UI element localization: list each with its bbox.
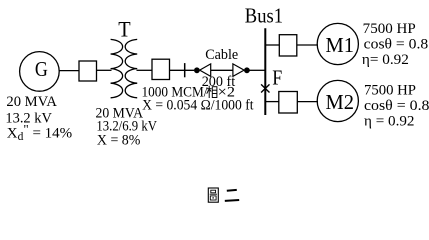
wire breaker 2 to cable [170, 69, 195, 71]
breaker box 2 [152, 59, 170, 79]
svg-text:13.2 kV: 13.2 kV [5, 111, 52, 127]
svg-text:G: G [35, 57, 48, 81]
cable conductor wire [211, 69, 233, 71]
cable left terminal triangle [200, 64, 211, 77]
bus Bus1 [264, 28, 266, 115]
svg-text:T: T [118, 18, 130, 42]
svg-text:Bus1: Bus1 [245, 4, 283, 27]
transformer right winding [125, 39, 137, 97]
transformer left winding [111, 39, 123, 97]
breaker box 1 [79, 61, 97, 81]
wire bus to breaker 4 [265, 101, 279, 103]
wire cable to bus [250, 69, 266, 71]
cable right terminal dot [244, 67, 250, 73]
svg-text:F: F [272, 65, 282, 89]
svg-text:Cable: Cable [205, 47, 238, 63]
wire breaker 3 to motor M1 [297, 44, 318, 46]
wire transformer to breaker 2 [137, 69, 153, 71]
svg-text:7500 HP: 7500 HP [364, 82, 416, 98]
generator G circle [20, 52, 60, 92]
fault X mark [261, 84, 269, 92]
svg-text:20 MVA: 20 MVA [6, 94, 57, 110]
caption character 二 [225, 190, 239, 201]
wire bus to breaker 3 [265, 44, 279, 46]
wire generator to breaker [59, 70, 79, 72]
wire breaker 4 to motor M2 [297, 101, 318, 103]
svg-text:η= 0.92: η= 0.92 [362, 52, 409, 68]
tick mark on wire [184, 63, 186, 77]
svg-text:Xd" = 14%: Xd" = 14% [7, 122, 72, 144]
motor M2 circle [317, 80, 358, 121]
cable left terminal dot [194, 67, 200, 73]
caption character 圖 [208, 188, 218, 202]
svg-text:M1: M1 [326, 33, 355, 57]
svg-text:cosθ = 0.8: cosθ = 0.8 [364, 36, 429, 52]
svg-text:η = 0.92: η = 0.92 [364, 114, 415, 130]
motor M1 circle [317, 23, 358, 64]
svg-text:X = 8%: X = 8% [97, 132, 140, 148]
svg-text:M2: M2 [326, 90, 355, 114]
wire breaker to transformer [97, 69, 112, 71]
svg-text:cosθ = 0.8: cosθ = 0.8 [364, 98, 429, 114]
breaker box 4 [279, 92, 298, 114]
svg-text:7500 HP: 7500 HP [363, 21, 416, 37]
svg-text:X = 0.054 Ω/1000 ft: X = 0.054 Ω/1000 ft [142, 98, 254, 114]
breaker box 3 [279, 35, 297, 56]
cable phase character 相 [207, 86, 217, 98]
cable right terminal triangle [233, 64, 244, 77]
